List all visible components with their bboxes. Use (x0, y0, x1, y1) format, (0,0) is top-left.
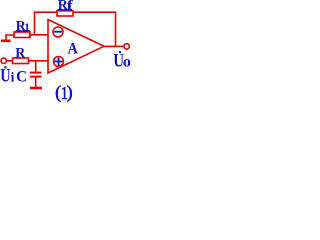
svg-text:U: U (0, 66, 10, 87)
svg-text:o: o (123, 53, 131, 70)
svg-text:f: f (67, 0, 74, 13)
svg-text:R: R (15, 46, 25, 62)
svg-text:): ) (67, 82, 73, 102)
svg-text:i: i (11, 69, 15, 84)
svg-text:A: A (68, 40, 79, 57)
svg-text:C: C (16, 69, 27, 86)
